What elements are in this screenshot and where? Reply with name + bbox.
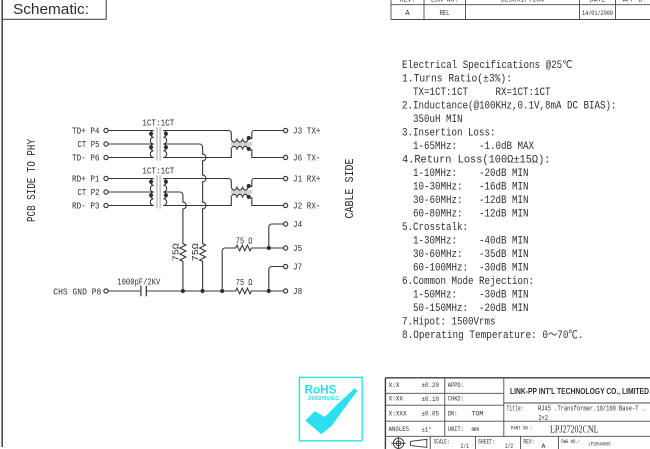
choke L2 bottom dot bbox=[247, 195, 251, 199]
svg-text:X:XX: X:XX bbox=[389, 396, 403, 403]
svg-text:14/01/2009: 14/01/2009 bbox=[582, 10, 613, 18]
title block row line 1 bbox=[385, 392, 503, 394]
svg-text:3.Insertion Loss:: 3.Insertion Loss: bbox=[402, 128, 496, 140]
title block bbox=[385, 378, 650, 449]
wire CT P2 bbox=[108, 191, 154, 193]
terminal J6 bbox=[284, 155, 288, 159]
transformer T1 core bbox=[156, 128, 158, 161]
junction bus-R1 bbox=[181, 289, 185, 293]
wire CT branch with resistor R2 75ohm bbox=[163, 144, 206, 291]
svg-text:4.Return Loss(100Ω±15Ω):: 4.Return Loss(100Ω±15Ω): bbox=[402, 155, 551, 167]
svg-text:DWG NO.:: DWG NO.: bbox=[561, 439, 580, 445]
svg-text:REV:: REV: bbox=[523, 438, 534, 445]
wire J4 stub bbox=[269, 224, 284, 248]
svg-text:CT P2: CT P2 bbox=[78, 187, 100, 198]
resistor R3 75ohm branch bbox=[222, 245, 283, 291]
revision table bbox=[391, 0, 650, 20]
svg-text:2002/95/EC: 2002/95/EC bbox=[308, 396, 340, 402]
svg-text:5.Crosstalk:: 5.Crosstalk: bbox=[402, 222, 468, 234]
svg-text:75Ω: 75Ω bbox=[190, 243, 201, 261]
svg-text:J4: J4 bbox=[293, 219, 302, 230]
svg-text:6.Common Mode Rejection:: 6.Common Mode Rejection: bbox=[402, 276, 534, 288]
wire CT branch with resistor R1 75ohm bbox=[163, 192, 186, 291]
frame left border line bbox=[1, 0, 3, 447]
svg-text:60-100MHz: -30dB MIN: 60-100MHz: -30dB MIN bbox=[413, 263, 529, 275]
svg-text:Electrical Specifications @25℃: Electrical Specifications @25℃ bbox=[402, 60, 573, 72]
svg-text:J2 RX-: J2 RX- bbox=[293, 201, 321, 212]
svg-text:J3 TX+: J3 TX+ bbox=[293, 126, 321, 137]
svg-text:TOM: TOM bbox=[472, 410, 484, 417]
terminal J8 bbox=[284, 289, 288, 293]
capacitor C1 plates bbox=[140, 286, 142, 297]
terminal P4 bbox=[104, 128, 108, 132]
Schematic title box bbox=[2, 0, 106, 19]
svg-text:J6 TX-: J6 TX- bbox=[293, 153, 321, 164]
choke L2 core bbox=[231, 190, 252, 192]
svg-text:±0.20: ±0.20 bbox=[422, 382, 440, 389]
svg-text:2.Inductance(@100KHz,0.1V,8mA: 2.Inductance(@100KHz,0.1V,8mA DC BIAS): bbox=[402, 101, 617, 113]
svg-text:DATE: DATE bbox=[590, 0, 606, 3]
svg-text:1.Turns Ratio(±3%):: 1.Turns Ratio(±3%): bbox=[402, 74, 512, 86]
terminal P2 bbox=[104, 190, 108, 194]
svg-text:1-50MHz: -30dB MIN: 1-50MHz: -30dB MIN bbox=[413, 290, 529, 302]
svg-text:±1°: ±1° bbox=[422, 425, 432, 433]
electrical specifications text bbox=[402, 60, 617, 342]
terminal P5 bbox=[104, 142, 108, 146]
svg-text:mm: mm bbox=[472, 426, 480, 433]
wire secondary top to choke L2 bbox=[163, 179, 231, 187]
choke L2 top dot bbox=[247, 184, 251, 188]
svg-text:7.Hipot: 1500Vrms: 7.Hipot: 1500Vrms bbox=[402, 317, 496, 329]
wire J7 stub bbox=[269, 267, 284, 292]
choke L1 bottom winding bbox=[231, 146, 283, 157]
junction bus-J7 bbox=[267, 289, 271, 293]
svg-text:X:X: X:X bbox=[389, 382, 400, 389]
svg-text:RD+ P1: RD+ P1 bbox=[72, 174, 100, 185]
svg-text:TD- P6: TD- P6 bbox=[72, 153, 100, 164]
transformer T2 secondary phase dots bbox=[164, 180, 168, 184]
choke L1 bottom dot bbox=[247, 147, 251, 151]
terminal P8 bbox=[104, 289, 108, 293]
first angle projection symbol circle bbox=[391, 437, 406, 449]
title block outer top line bbox=[385, 377, 650, 379]
svg-text:A: A bbox=[542, 443, 546, 449]
choke L2 top winding bbox=[231, 179, 283, 191]
svg-text:RoHS: RoHS bbox=[305, 385, 337, 397]
terminal J7 bbox=[284, 264, 288, 268]
svg-text:J1 RX+: J1 RX+ bbox=[293, 174, 321, 185]
choke L1 top dot bbox=[247, 136, 251, 140]
svg-text:Title:: Title: bbox=[507, 406, 524, 414]
wire RD+ bbox=[108, 178, 154, 180]
transformer T1 secondary phase dots bbox=[164, 132, 168, 136]
terminal J3 bbox=[284, 128, 288, 132]
svg-text:TX=1CT:1CT RX=1CT:1CT: TX=1CT:1CT RX=1CT:1CT bbox=[413, 87, 551, 99]
svg-text:75 Ω: 75 Ω bbox=[236, 235, 253, 246]
title block inner vertical tolerance/appd bbox=[444, 378, 446, 437]
svg-text:8.Operating Temperature: 0～70℃: 8.Operating Temperature: 0～70℃. bbox=[402, 329, 584, 342]
wire P8 to capacitor C1 bbox=[108, 290, 140, 292]
terminal P3 bbox=[104, 203, 108, 207]
svg-text:30-60MHz: -35dB MIN: 30-60MHz: -35dB MIN bbox=[413, 249, 529, 261]
terminal P1 bbox=[104, 176, 108, 180]
choke L1 top winding bbox=[231, 131, 283, 143]
choke L1 core bbox=[231, 142, 252, 144]
transformer T2 core bbox=[156, 176, 158, 209]
title block bottom strip verticals bbox=[429, 436, 431, 449]
svg-text:APPD:: APPD: bbox=[448, 382, 464, 389]
svg-text:1-30MHz: -40dB MIN: 1-30MHz: -40dB MIN bbox=[413, 236, 529, 248]
svg-text:J5: J5 bbox=[293, 243, 302, 254]
wire secondary top to choke L1 bbox=[163, 131, 231, 139]
ground bus wire with resistor R4 75ohm bbox=[147, 288, 284, 294]
svg-text:CT P5: CT P5 bbox=[78, 139, 100, 150]
wire TD- bbox=[108, 157, 154, 159]
svg-text:CHS GND P8: CHS GND P8 bbox=[53, 286, 101, 297]
wire CT P5 bbox=[108, 143, 154, 145]
svg-text:1-65MHz: -1.0dB MAX: 1-65MHz: -1.0dB MAX bbox=[413, 141, 534, 153]
transformer T1 primary winding bbox=[150, 131, 153, 158]
terminal J1 bbox=[284, 176, 288, 180]
wire TD+ bbox=[108, 130, 154, 132]
svg-text:X:XXX: X:XXX bbox=[389, 410, 407, 417]
svg-text:75 Ω: 75 Ω bbox=[236, 277, 253, 288]
transformer T2 primary winding bbox=[150, 179, 153, 206]
svg-text:PART NO.:: PART NO.: bbox=[511, 425, 533, 431]
svg-text:PCB SIDE TO PHY: PCB SIDE TO PHY bbox=[25, 139, 39, 222]
svg-text:CABLE SIDE: CABLE SIDE bbox=[343, 159, 357, 219]
title block inner vertical appd/company bbox=[503, 378, 505, 437]
terminal P6 bbox=[104, 155, 108, 159]
svg-text:350uH MIN: 350uH MIN bbox=[413, 114, 463, 126]
svg-text:1CT:1CT: 1CT:1CT bbox=[142, 117, 174, 128]
svg-text:REL: REL bbox=[440, 10, 450, 18]
svg-text:SCALE:: SCALE: bbox=[434, 438, 450, 445]
svg-text:1/2: 1/2 bbox=[505, 443, 513, 449]
RoHS checkmark bbox=[305, 388, 357, 434]
svg-text:LINK-PP INT'L TECHNOLOGY CO.,: LINK-PP INT'L TECHNOLOGY CO., LIMITED bbox=[510, 386, 649, 396]
svg-text:75Ω: 75Ω bbox=[170, 243, 181, 261]
RoHS logo box bbox=[299, 377, 362, 440]
svg-text:2/1: 2/1 bbox=[461, 443, 469, 449]
svg-text:TD+ P4: TD+ P4 bbox=[72, 126, 100, 137]
svg-text:CHKD:: CHKD: bbox=[448, 396, 464, 403]
svg-text:J8: J8 bbox=[293, 286, 302, 297]
svg-text:DR:: DR: bbox=[448, 410, 458, 417]
svg-text:1-10MHz: -20dB MIN: 1-10MHz: -20dB MIN bbox=[413, 168, 529, 180]
terminal J2 bbox=[284, 203, 288, 207]
svg-text:APP'D: APP'D bbox=[623, 0, 643, 3]
title block part row underline bbox=[385, 435, 650, 437]
title block title underline bbox=[385, 420, 650, 422]
title block row line 2 bbox=[385, 404, 503, 406]
svg-text:±0.05: ±0.05 bbox=[422, 411, 440, 418]
svg-text:ECN NO.: ECN NO. bbox=[431, 0, 458, 3]
svg-text:J7: J7 bbox=[293, 262, 302, 273]
svg-text:2×2: 2×2 bbox=[539, 415, 549, 423]
first angle projection symbol cone bbox=[411, 439, 427, 447]
svg-text:ANGLES: ANGLES bbox=[389, 426, 410, 433]
junction bus-R3 bbox=[220, 289, 224, 293]
choke L2 bottom winding bbox=[231, 194, 283, 205]
svg-text:LPJ27202CNL: LPJ27202CNL bbox=[550, 425, 599, 436]
junction J4-J5 bbox=[267, 246, 271, 250]
svg-text:RJ45 .Transformer.10/100 Base-: RJ45 .Transformer.10/100 Base-T . bbox=[538, 406, 645, 414]
svg-text:Schematic:: Schematic: bbox=[13, 2, 89, 18]
svg-text:30-60MHz: -12dB MIN: 30-60MHz: -12dB MIN bbox=[413, 195, 529, 207]
wire secondary bottom to choke L2 bbox=[163, 198, 231, 206]
svg-text:60-80MHz: -12dB MIN: 60-80MHz: -12dB MIN bbox=[413, 209, 529, 221]
title block company underline bbox=[504, 402, 650, 404]
svg-text:RD- P3: RD- P3 bbox=[72, 201, 100, 212]
transformer T1 primary phase dots bbox=[149, 132, 153, 136]
svg-text:1CT:1CT: 1CT:1CT bbox=[142, 165, 174, 176]
svg-text:DESCRIPTION: DESCRIPTION bbox=[501, 0, 544, 3]
svg-text:SHEET:: SHEET: bbox=[478, 438, 495, 445]
transformer T2 secondary winding bbox=[163, 179, 166, 206]
junction bus-R2 bbox=[201, 289, 205, 293]
svg-text:10-30MHz: -16dB MIN: 10-30MHz: -16dB MIN bbox=[413, 182, 529, 194]
title block outer left line bbox=[384, 378, 386, 449]
svg-text:±0.10: ±0.10 bbox=[422, 396, 440, 403]
svg-text:50-150MHz: -20dB MIN: 50-150MHz: -20dB MIN bbox=[413, 303, 529, 315]
svg-text:REV.: REV. bbox=[400, 0, 416, 3]
wire secondary bottom to choke L1 bbox=[163, 150, 231, 158]
wire RD- bbox=[108, 205, 154, 207]
svg-text:1000pF/2KV: 1000pF/2KV bbox=[117, 276, 160, 287]
terminal J4 bbox=[284, 222, 288, 226]
terminal J5 bbox=[284, 246, 288, 250]
svg-text:LP10040605: LP10040605 bbox=[589, 442, 611, 448]
transformer T1 secondary winding bbox=[163, 131, 166, 158]
svg-text:UNIT:: UNIT: bbox=[448, 426, 464, 433]
transformer T2 primary phase dots bbox=[149, 180, 153, 184]
